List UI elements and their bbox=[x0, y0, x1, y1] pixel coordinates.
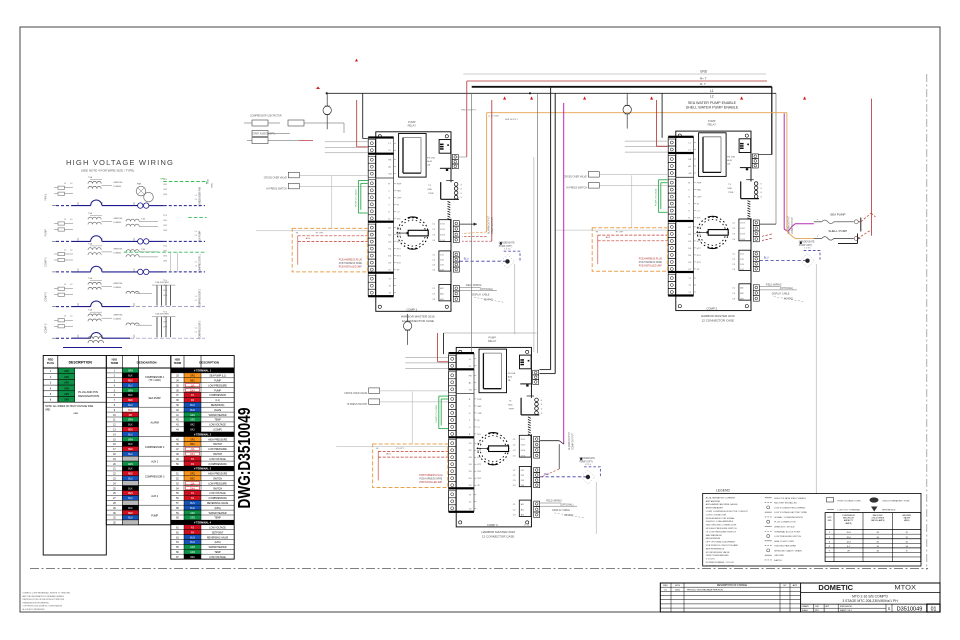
svg-text:14 AWG: 14 AWG bbox=[113, 185, 121, 188]
svg-text:GRN/YEL: GRN/YEL bbox=[113, 283, 123, 285]
svg-text:T1A: T1A bbox=[88, 309, 93, 312]
svg-text:PUMP (OPT): PUMP (OPT) bbox=[579, 461, 593, 463]
svg-text:FAN 1: FAN 1 bbox=[45, 193, 48, 201]
svg-text:PMP: PMP bbox=[477, 399, 482, 401]
svg-text:T1A: T1A bbox=[88, 212, 93, 215]
svg-text:REVERSING: REVERSING bbox=[211, 405, 225, 407]
svg-text:COMP OUTPUT: COMP OUTPUT bbox=[792, 216, 794, 234]
svg-text:GND GROUND CONNECTION: GND GROUND CONNECTION bbox=[706, 525, 737, 527]
svg-text:SEE NOTE 2: SEE NOTE 2 bbox=[505, 119, 519, 121]
svg-text:SEA PUMP: SEA PUMP bbox=[199, 230, 202, 242]
svg-text:DRAWN: DRAWN bbox=[802, 605, 809, 608]
svg-text:14 AWG: 14 AWG bbox=[113, 318, 121, 321]
svg-text:DISPLAY CABLE: DISPLAY CABLE bbox=[772, 293, 790, 296]
svg-text:T1G: T1G bbox=[163, 312, 167, 314]
svg-text:G: G bbox=[388, 197, 390, 199]
svg-text:FAN: FAN bbox=[397, 189, 402, 192]
svg-text:GRN: GRN bbox=[64, 377, 69, 379]
svg-text:D3510049: D3510049 bbox=[897, 607, 923, 613]
svg-text:DISPLAY CABLE: DISPLAY CABLE bbox=[472, 293, 490, 296]
svg-text:COMP 2: COMP 2 bbox=[45, 291, 48, 301]
svg-text:14 AWG: 14 AWG bbox=[113, 251, 121, 254]
svg-text:# TERMINAL 3: # TERMINAL 3 bbox=[194, 468, 212, 471]
svg-text:AND THE INFORMATION CONTAINED: AND THE INFORMATION CONTAINED HEREIN. bbox=[23, 595, 65, 598]
svg-text:W WIRE NUMBER / COLOR: W WIRE NUMBER / COLOR bbox=[706, 562, 734, 564]
svg-text:1 2 3 4: 1 2 3 4 bbox=[804, 248, 811, 250]
svg-text:HI PRESS SWITCH: HI PRESS SWITCH bbox=[266, 188, 287, 190]
svg-text:L2: L2 bbox=[710, 95, 714, 99]
svg-text:GR3: GR3 bbox=[190, 547, 195, 549]
svg-text:RED: RED bbox=[48, 358, 54, 362]
svg-text:DESCRIPTION: DESCRIPTION bbox=[69, 361, 93, 365]
svg-text:PCB HARNESS PLUG: PCB HARNESS PLUG bbox=[639, 258, 663, 261]
svg-text:SWITCH: SWITCH bbox=[213, 479, 222, 481]
svg-text:TEMP TEMPERATURE: TEMP TEMPERATURE bbox=[706, 554, 730, 557]
svg-text:T1B: T1B bbox=[141, 218, 146, 220]
svg-text:T1G: T1G bbox=[163, 215, 167, 217]
svg-text:RED: RED bbox=[128, 513, 133, 515]
svg-text:GRN: GRN bbox=[128, 464, 133, 466]
svg-text:BLK: BLK bbox=[128, 488, 133, 490]
svg-text:1 2 3 4: 1 2 3 4 bbox=[504, 248, 511, 250]
svg-text:CROSS OVER VALVE: CROSS OVER VALVE bbox=[344, 392, 367, 395]
svg-text:PCB INSTALLED JMP: PCB INSTALLED JMP bbox=[339, 265, 362, 268]
svg-text:14 AWG: 14 AWG bbox=[113, 221, 121, 224]
svg-text:HP HIGH PRESSURE SWITCH: HP HIGH PRESSURE SWITCH bbox=[706, 528, 737, 530]
svg-text:BU4: BU4 bbox=[190, 542, 195, 544]
svg-text:GRN: GRN bbox=[64, 383, 69, 385]
svg-text:START ASSIST (OPT): START ASSIST (OPT) bbox=[252, 133, 275, 136]
svg-text:GRN: GRN bbox=[64, 400, 69, 402]
svg-text:RED: RED bbox=[128, 449, 133, 451]
svg-text:SEA PUMP (L1): SEA PUMP (L1) bbox=[209, 375, 226, 378]
svg-text:BLU: BLU bbox=[128, 498, 133, 500]
svg-text:HIGH VOLTAGE FIELD WIRING: HIGH VOLTAGE FIELD WIRING bbox=[774, 497, 806, 500]
svg-text:# TERMINAL 1: # TERMINAL 1 bbox=[194, 370, 212, 373]
svg-text:RELAY: RELAY bbox=[488, 339, 497, 343]
svg-text:EARTH: EARTH bbox=[774, 559, 782, 562]
svg-text:SIG: SIG bbox=[697, 218, 701, 220]
svg-text:DO3: DO3 bbox=[521, 450, 526, 452]
svg-text:WHT WIRE COLOR / WHITE: WHT WIRE COLOR / WHITE bbox=[706, 565, 735, 567]
svg-text:DO4: DO4 bbox=[740, 239, 745, 241]
svg-text:AUX 2: AUX 2 bbox=[151, 495, 159, 498]
svg-text:GAUGE: GAUGE bbox=[903, 517, 910, 520]
svg-text:L1 L2: L1 L2 bbox=[524, 525, 530, 527]
svg-text:TERM: TERM bbox=[174, 361, 181, 365]
svg-text:NOTE: ALL WIRES ON HIGH VOLTAG: NOTE: ALL WIRES ON HIGH VOLTAGE SIDE bbox=[45, 405, 93, 408]
svg-text:LO: LO bbox=[397, 211, 400, 213]
svg-text:4691: 4691 bbox=[675, 589, 681, 591]
svg-text:AWG AMERICAN WIRE GAUGE: AWG AMERICAN WIRE GAUGE bbox=[706, 503, 739, 506]
svg-text:R- T: R- T bbox=[700, 82, 706, 86]
svg-text:SIGNAL / COMMUNICATION: SIGNAL / COMMUNICATION bbox=[774, 516, 803, 519]
svg-text:TWISTED PAIR WIRE: TWISTED PAIR WIRE bbox=[774, 545, 796, 548]
svg-text:SIG: SIG bbox=[397, 218, 401, 220]
svg-text:GROUND: GROUND bbox=[774, 555, 784, 557]
svg-text:GRN: GRN bbox=[128, 390, 133, 392]
svg-text:SEA PUMP: SEA PUMP bbox=[830, 212, 845, 216]
svg-text:COMPRESSOR: COMPRESSOR bbox=[209, 395, 226, 397]
svg-text:RED: RED bbox=[128, 474, 133, 476]
svg-text:GRN: GRN bbox=[64, 394, 69, 396]
svg-text:KEYPAD: KEYPAD bbox=[564, 514, 573, 517]
svg-text:MAX MAXIMUM: MAX MAXIMUM bbox=[706, 534, 722, 537]
svg-text:DO2: DO2 bbox=[521, 444, 526, 446]
svg-text:WATER HEATER: WATER HEATER bbox=[209, 414, 227, 417]
svg-text:COMPRESSOR 2: COMPRESSOR 2 bbox=[200, 288, 202, 307]
svg-text:GRN/YEL: GRN/YEL bbox=[113, 248, 123, 250]
svg-text:BU2: BU2 bbox=[190, 508, 195, 510]
svg-text:DO2: DO2 bbox=[440, 229, 445, 231]
svg-text:SEA PUMP: SEA PUMP bbox=[149, 397, 162, 400]
svg-text:(OPTIONAL): (OPTIONAL) bbox=[560, 503, 573, 506]
svg-text:BLU: BLU bbox=[464, 257, 469, 260]
svg-text:CMP: CMP bbox=[697, 197, 702, 199]
svg-text:HIGH VOLTAGE WIRING: HIGH VOLTAGE WIRING bbox=[66, 158, 174, 167]
svg-text:DO3: DO3 bbox=[740, 234, 745, 236]
svg-text:SHIELDED CABLE / DRAIN: SHIELDED CABLE / DRAIN bbox=[774, 549, 802, 552]
svg-text:FIELD WIRING: FIELD WIRING bbox=[466, 285, 482, 287]
svg-text:HI PRESS SWITCH: HI PRESS SWITCH bbox=[566, 188, 587, 190]
svg-text:OPT OPTIONAL EQUIPMENT: OPT OPTIONAL EQUIPMENT bbox=[706, 541, 736, 544]
svg-text:OR1: OR1 bbox=[190, 376, 195, 378]
svg-text:GRN: GRN bbox=[73, 413, 78, 415]
svg-text:HIGH VOLTAGE CONN: HIGH VOLTAGE CONN bbox=[838, 499, 862, 502]
svg-text:PUMP (TX+GND): PUMP (TX+GND) bbox=[655, 189, 657, 207]
svg-text:OR1: OR1 bbox=[190, 474, 195, 476]
svg-text:COMP 1: COMP 1 bbox=[406, 307, 417, 311]
svg-text:FB 5VA: FB 5VA bbox=[727, 156, 735, 159]
svg-text:LOW PRESSURE SWITCH: LOW PRESSURE SWITCH bbox=[774, 536, 801, 538]
svg-text:PMP: PMP bbox=[697, 183, 702, 185]
svg-text:REF REFERENCE: REF REFERENCE bbox=[706, 548, 725, 550]
svg-text:HI: HI bbox=[596, 232, 599, 234]
svg-text:(AMPS): (AMPS) bbox=[845, 522, 852, 525]
svg-text:3 STAGE MTC 208-230V/60Hz/1: 3 STAGE MTC 208-230V/60Hz/1 PH bbox=[842, 599, 898, 603]
svg-text:BLK: BLK bbox=[128, 469, 133, 471]
svg-text:PRODUCTION RELEASE PER ECN: PRODUCTION RELEASE PER ECN bbox=[687, 588, 723, 591]
svg-text:ARE:: ARE: bbox=[45, 408, 51, 411]
svg-text:(COMPRESSOR): (COMPRESSOR) bbox=[209, 464, 227, 466]
svg-text:PUMP (OPT): PUMP (OPT) bbox=[499, 246, 513, 248]
svg-text:O: O bbox=[469, 427, 471, 429]
svg-text:PCB HARNESS WIRE: PCB HARNESS WIRE bbox=[419, 477, 443, 480]
svg-text:PERMISSION IS PROHIBITED.: PERMISSION IS PROHIBITED. bbox=[23, 602, 50, 604]
svg-text:PCB HARNESS PLUG: PCB HARNESS PLUG bbox=[339, 258, 363, 261]
svg-text:GND: GND bbox=[208, 179, 210, 184]
svg-text:CROSS OVER VALVE: CROSS OVER VALVE bbox=[564, 176, 587, 179]
svg-text:SEA WATER PUMP ENABLE: SEA WATER PUMP ENABLE bbox=[688, 101, 737, 105]
svg-text:GRN/YEL: GRN/YEL bbox=[113, 218, 123, 220]
svg-text:RV REVERSING VALVE: RV REVERSING VALVE bbox=[706, 551, 730, 554]
svg-text:SIZE DWG NO.: SIZE DWG NO. bbox=[840, 606, 853, 608]
svg-text:12 CONNECTOR CASE: 12 CONNECTOR CASE bbox=[702, 318, 734, 322]
svg-text:FB FEEDBACK FOR SIGNAL: FB FEEDBACK FOR SIGNAL bbox=[706, 517, 736, 520]
svg-text:AUX: AUX bbox=[606, 236, 611, 239]
svg-text:T1A: T1A bbox=[88, 176, 93, 179]
svg-text:PCB PRINTED CIRCUIT BOARD: PCB PRINTED CIRCUIT BOARD bbox=[706, 544, 739, 547]
svg-text:DO2: DO2 bbox=[740, 228, 745, 230]
svg-text:BLU: BLU bbox=[128, 405, 133, 407]
svg-text:GND: GND bbox=[508, 404, 513, 406]
svg-text:COPYRIGHT 2016 DOMETIC CORPORA: COPYRIGHT 2016 DOMETIC CORPORATION bbox=[23, 605, 63, 608]
svg-text:GRN: GRN bbox=[212, 183, 214, 188]
svg-text:BLU: BLU bbox=[128, 454, 133, 456]
svg-text:SWITCH: SWITCH bbox=[213, 454, 222, 456]
svg-text:TEMP: TEMP bbox=[214, 420, 221, 422]
svg-text:MTO 2-16 S/S COMP'D: MTO 2-16 S/S COMP'D bbox=[852, 594, 888, 598]
svg-text:DK4: DK4 bbox=[190, 390, 195, 392]
svg-text:MIN MINIMUM: MIN MINIMUM bbox=[706, 538, 721, 540]
svg-text:DO1: DO1 bbox=[521, 439, 526, 441]
svg-text:COMP OUTPUT: COMP OUTPUT bbox=[573, 432, 575, 450]
svg-text:GRN/YEL: GRN/YEL bbox=[113, 182, 123, 184]
svg-text:BLK: BLK bbox=[128, 444, 133, 446]
svg-text:RATING (AMPS): RATING (AMPS) bbox=[871, 519, 885, 522]
svg-text:COMP 1: COMP 1 bbox=[45, 257, 48, 267]
svg-text:LOW PRESSURE: LOW PRESSURE bbox=[208, 449, 227, 451]
svg-text:RELAY: RELAY bbox=[408, 123, 417, 127]
svg-text:GR1: GR1 bbox=[190, 415, 195, 417]
svg-text:R+ T: R+ T bbox=[700, 77, 707, 81]
svg-text:(AWG): (AWG) bbox=[904, 519, 910, 522]
svg-text:COMP 3: COMP 3 bbox=[45, 323, 48, 333]
svg-text:PUMP (OPT): PUMP (OPT) bbox=[799, 245, 813, 247]
svg-text:BK1: BK1 bbox=[190, 444, 195, 446]
svg-text:KEYPAD: KEYPAD bbox=[484, 298, 493, 301]
svg-text:DO1: DO1 bbox=[440, 223, 445, 225]
svg-text:COMP 2: COMP 2 bbox=[706, 307, 717, 311]
svg-text:# TERMINAL 2: # TERMINAL 2 bbox=[194, 433, 212, 436]
svg-text:PUMP: PUMP bbox=[708, 119, 716, 123]
svg-text:GRN: GRN bbox=[128, 371, 133, 373]
svg-text:SWITCH: SWITCH bbox=[213, 488, 222, 490]
svg-text:DO1: DO1 bbox=[740, 223, 745, 225]
svg-text:(COMPRESSOR): (COMPRESSOR) bbox=[209, 498, 227, 500]
svg-text:FT OPT: FT OPT bbox=[616, 232, 624, 234]
svg-text:PCB HARNESS WIRE: PCB HARNESS WIRE bbox=[339, 262, 363, 265]
svg-text:GD: GD bbox=[388, 174, 392, 176]
svg-text:GRN: GRN bbox=[160, 179, 165, 181]
svg-text:AC ALTERNATING CURRENT: AC ALTERNATING CURRENT bbox=[706, 496, 736, 499]
svg-text:(OPTIONAL): (OPTIONAL) bbox=[780, 287, 793, 290]
svg-text:01: 01 bbox=[931, 606, 937, 612]
svg-text:GD: GD bbox=[688, 173, 692, 175]
svg-text:BRKR BREAKER: BRKR BREAKER bbox=[706, 507, 724, 510]
svg-text:GR4: GR4 bbox=[190, 552, 195, 554]
svg-text:LEGEND: LEGEND bbox=[716, 489, 730, 493]
svg-text:BLU: BLU bbox=[128, 518, 133, 520]
svg-text:REPRODUCTION OR USE WITHOUT WR: REPRODUCTION OR USE WITHOUT WRITTEN bbox=[23, 599, 65, 601]
svg-text:PUMP: PUMP bbox=[45, 229, 48, 237]
svg-text:HIGH PRESSURE: HIGH PRESSURE bbox=[208, 439, 227, 441]
svg-text:CMP: CMP bbox=[397, 197, 402, 199]
svg-text:PWR: PWR bbox=[728, 192, 734, 194]
svg-text:DISPLAY CABLE: DISPLAY CABLE bbox=[552, 509, 570, 512]
svg-text:FT OPT: FT OPT bbox=[316, 232, 324, 234]
svg-text:BU2: BU2 bbox=[190, 410, 195, 412]
svg-text:REVERSING VALVE: REVERSING VALVE bbox=[207, 536, 229, 539]
svg-text:L1: L1 bbox=[710, 89, 714, 93]
svg-text:ALL RIGHTS RESERVED.: ALL RIGHTS RESERVED. bbox=[23, 608, 46, 611]
svg-text:BLU: BLU bbox=[128, 434, 133, 436]
svg-text:BK3: BK3 bbox=[190, 430, 195, 432]
svg-text:GND: GND bbox=[700, 70, 708, 74]
svg-text:BU3: BU3 bbox=[190, 537, 195, 539]
svg-text:TEMP: TEMP bbox=[214, 552, 221, 554]
svg-text:BK2: BK2 bbox=[190, 425, 195, 427]
svg-text:14 AWG: 14 AWG bbox=[113, 286, 121, 289]
svg-text:AUX 1: AUX 1 bbox=[151, 461, 159, 464]
svg-text:GND: GND bbox=[727, 188, 732, 190]
svg-text:APP: APP bbox=[793, 584, 798, 587]
svg-text:LP LOW PRESSURE SWITCH: LP LOW PRESSURE SWITCH bbox=[706, 531, 737, 533]
svg-text:TERMINAL BLOCK POINT: TERMINAL BLOCK POINT bbox=[774, 530, 801, 533]
svg-text:ALM: ALM bbox=[427, 160, 432, 163]
svg-text:T1A: T1A bbox=[88, 242, 93, 245]
svg-text:COMPRESSOR 3: COMPRESSOR 3 bbox=[145, 475, 165, 478]
svg-text:BK6: BK6 bbox=[190, 557, 195, 559]
svg-text:MAX FUSE /: MAX FUSE / bbox=[873, 514, 884, 517]
svg-text:BLK: BLK bbox=[128, 376, 133, 378]
svg-text:LOW VOLTAGE: LOW VOLTAGE bbox=[209, 424, 226, 427]
svg-text:SETPOINT: SETPOINT bbox=[212, 532, 224, 534]
svg-text:BLK: BLK bbox=[128, 425, 133, 427]
svg-text:BK1: BK1 bbox=[190, 479, 195, 481]
svg-text:GRN: GRN bbox=[64, 371, 69, 373]
svg-text:BLK: BLK bbox=[128, 395, 133, 397]
svg-text:LOW PRESSURE: LOW PRESSURE bbox=[208, 483, 227, 485]
svg-text:REFERENCE: REFERENCE bbox=[882, 510, 896, 512]
svg-text:PWR: PWR bbox=[509, 408, 515, 410]
svg-text:PUMP: PUMP bbox=[408, 120, 416, 124]
svg-text:SHELL WATER PUMP ENABLE: SHELL WATER PUMP ENABLE bbox=[686, 106, 739, 110]
svg-text:COMP 3: COMP 3 bbox=[487, 523, 498, 527]
svg-text:PLUG: PLUG bbox=[47, 361, 54, 365]
svg-text:DK4: DK4 bbox=[190, 454, 195, 456]
svg-text:MTOX: MTOX bbox=[894, 585, 916, 592]
svg-text:T1A: T1A bbox=[88, 277, 93, 280]
svg-text:DO4: DO4 bbox=[521, 455, 526, 457]
svg-text:(FAN): (FAN) bbox=[215, 507, 221, 510]
svg-text:COMPRESSOR 2: COMPRESSOR 2 bbox=[145, 446, 165, 449]
svg-text:LOW VOLTAGE: LOW VOLTAGE bbox=[209, 556, 226, 559]
svg-text:HARBOR MASTER 2016: HARBOR MASTER 2016 bbox=[481, 530, 515, 534]
svg-text:HI PRESS SWITCH: HI PRESS SWITCH bbox=[347, 404, 368, 406]
svg-text:FLA FULL LOAD AMPERES: FLA FULL LOAD AMPERES bbox=[706, 520, 734, 523]
svg-text:AUX: AUX bbox=[306, 237, 311, 240]
svg-text:PCB INSTALLED JMP: PCB INSTALLED JMP bbox=[639, 265, 662, 268]
svg-text:GR2: GR2 bbox=[190, 518, 195, 520]
svg-text:DESCRIPTION: DESCRIPTION bbox=[199, 361, 219, 365]
svg-text:FAN: FAN bbox=[137, 183, 142, 186]
svg-text:ALARM OUTPUT: ALARM OUTPUT bbox=[488, 215, 491, 234]
svg-text:PCB INSTALLED JMP: PCB INSTALLED JMP bbox=[419, 481, 442, 484]
svg-text:PUMP: PUMP bbox=[488, 335, 496, 339]
svg-text:FB 5VA: FB 5VA bbox=[508, 372, 516, 375]
svg-text:ALM: ALM bbox=[727, 159, 732, 162]
svg-text:FB 5VA: FB 5VA bbox=[427, 156, 435, 159]
svg-text:PWR: PWR bbox=[428, 193, 434, 195]
svg-text:(L1): (L1) bbox=[216, 400, 220, 402]
svg-text:ALARM OUTPUT: ALARM OUTPUT bbox=[568, 431, 571, 450]
svg-text:COMP COMPRESSOR MOTOR / CIRCU: COMP COMPRESSOR MOTOR / CIRCUIT bbox=[706, 511, 749, 513]
svg-text:WIRE NUT / SPLICE: WIRE NUT / SPLICE bbox=[774, 526, 795, 528]
svg-text:# TERMINAL 4: # TERMINAL 4 bbox=[194, 522, 212, 525]
svg-text:WATER HEATER: WATER HEATER bbox=[209, 546, 227, 549]
svg-text:O: O bbox=[388, 211, 390, 213]
svg-text:H2O: H2O bbox=[112, 358, 117, 362]
svg-text:(FAN): (FAN) bbox=[215, 541, 221, 544]
svg-text:GRN: GRN bbox=[128, 439, 133, 441]
svg-text:(OPTIONAL): (OPTIONAL) bbox=[480, 288, 493, 291]
svg-text:RED: RED bbox=[128, 493, 133, 495]
svg-text:HIGH PRESSURE: HIGH PRESSURE bbox=[208, 474, 227, 476]
svg-text:PUMP (TX+GND): PUMP (TX+GND) bbox=[355, 189, 357, 207]
svg-text:BLK: BLK bbox=[128, 410, 133, 412]
svg-text:BLU: BLU bbox=[128, 479, 133, 481]
svg-text:FIELD SUPPLY: FIELD SUPPLY bbox=[461, 110, 477, 112]
svg-text:HARBOR MASTER 2016: HARBOR MASTER 2016 bbox=[701, 314, 735, 318]
svg-text:ECN: ECN bbox=[675, 585, 680, 587]
svg-text:PCB HARNESS PLUG: PCB HARNESS PLUG bbox=[419, 474, 443, 477]
svg-text:LOW VOLT TERMINAL: LOW VOLT TERMINAL bbox=[838, 509, 862, 512]
svg-text:DOMETIC: DOMETIC bbox=[818, 583, 853, 592]
svg-text:GRN/YEL: GRN/YEL bbox=[113, 315, 123, 317]
svg-text:(SEE NOTE 4 FOR WIRE SIZE / TY: (SEE NOTE 4 FOR WIRE SIZE / TYPE) bbox=[81, 169, 134, 173]
svg-text:FAN: FAN bbox=[697, 189, 702, 192]
svg-text:PUMP (TX+GND): PUMP (TX+GND) bbox=[436, 405, 438, 423]
svg-text:SEAL TIGHT CONN: SEAL TIGHT CONN bbox=[774, 540, 794, 543]
svg-text:DESIGNATION: DESIGNATION bbox=[137, 361, 157, 365]
svg-text:GND: GND bbox=[427, 189, 432, 191]
svg-text:L1 L2 GND: L1 L2 GND bbox=[488, 116, 499, 118]
svg-text:LOW VOLTAGE FIELD WIRING: LOW VOLTAGE FIELD WIRING bbox=[774, 506, 805, 509]
svg-text:AMPACITY: AMPACITY bbox=[844, 519, 854, 522]
svg-text:T1G: T1G bbox=[163, 280, 167, 282]
svg-text:ALARM: ALARM bbox=[151, 421, 159, 424]
svg-text:BLU: BLU bbox=[128, 385, 133, 387]
svg-text:HI: HI bbox=[296, 232, 299, 234]
svg-text:RED: RED bbox=[128, 430, 133, 432]
svg-text:GR2: GR2 bbox=[190, 420, 195, 422]
svg-text:GR1: GR1 bbox=[190, 513, 195, 515]
svg-text:RED: RED bbox=[128, 400, 133, 402]
svg-text:T1G: T1G bbox=[163, 245, 167, 247]
svg-text:S: S bbox=[888, 606, 891, 611]
svg-text:BLK: BLK bbox=[128, 508, 133, 510]
svg-text:DK4: DK4 bbox=[190, 488, 195, 490]
svg-text:SIG: SIG bbox=[477, 434, 481, 436]
svg-text:VALVE: VALVE bbox=[214, 409, 222, 412]
svg-text:LO: LO bbox=[697, 211, 700, 213]
svg-text:GD: GD bbox=[469, 389, 473, 391]
svg-text:KEYPAD: KEYPAD bbox=[784, 298, 793, 301]
svg-text:DO4: DO4 bbox=[440, 240, 445, 242]
svg-text:DESIGNATIONS: DESIGNATIONS bbox=[78, 394, 99, 398]
svg-text:FAN: FAN bbox=[477, 405, 482, 408]
svg-text:PUMP: PUMP bbox=[214, 390, 221, 392]
svg-text:COMPRESSOR 3: COMPRESSOR 3 bbox=[200, 320, 202, 339]
svg-text:ALARM OUTPUT: ALARM OUTPUT bbox=[788, 215, 791, 234]
svg-text:BLU: BLU bbox=[764, 257, 769, 260]
svg-text:DOMETIC CORP RETAINS ALL RIGHT: DOMETIC CORP RETAINS ALL RIGHTS TO THIS … bbox=[23, 592, 71, 595]
svg-text:CROSS OVER VALVE: CROSS OVER VALVE bbox=[264, 176, 287, 179]
svg-text:LOW VOLTAGE: LOW VOLTAGE bbox=[209, 492, 226, 495]
svg-text:BU1: BU1 bbox=[190, 405, 195, 407]
svg-text:RELAY: RELAY bbox=[708, 123, 717, 127]
